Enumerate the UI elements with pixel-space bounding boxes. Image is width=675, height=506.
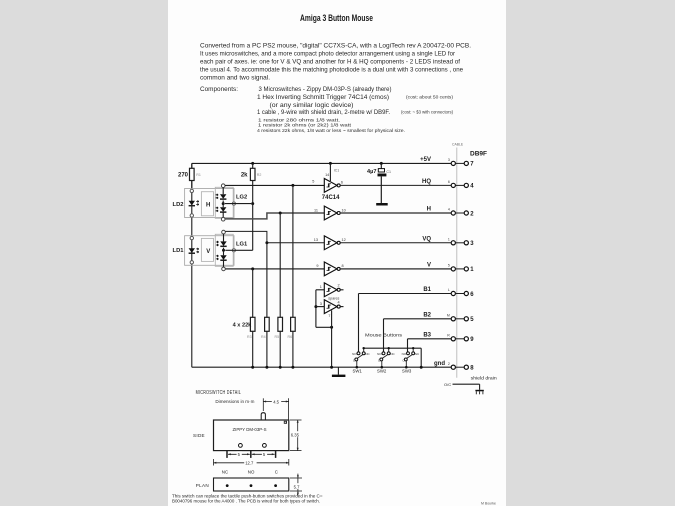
svg-text:4.5: 4.5 [273, 399, 279, 404]
label SW2 [377, 369, 387, 374]
label 4x22k [233, 322, 295, 368]
label spares [328, 296, 339, 300]
intro paragraph [200, 42, 471, 81]
svg-text:10: 10 [342, 208, 346, 212]
svg-text:NO: NO [377, 352, 382, 356]
wire V output [340, 268, 451, 270]
svg-text:8: 8 [342, 264, 344, 268]
inverter U1C VQ [314, 236, 346, 250]
svg-text:V: V [427, 263, 431, 269]
svg-text:3: 3 [320, 302, 322, 306]
wire B3 [408, 339, 452, 352]
svg-text:LD2: LD2 [173, 202, 184, 208]
svg-text:(cost: ~ $3 with connectors): (cost: ~ $3 with connectors) [401, 109, 454, 114]
svg-text:Components:: Components: [200, 86, 238, 93]
svg-text:IC1: IC1 [334, 168, 339, 172]
resistor R5 [278, 213, 283, 367]
wire HQ output [340, 184, 451, 186]
svg-text:1 Hex Inverting Schmitt Trigge: 1 Hex Inverting Schmitt Trigger 74C14 (c… [257, 94, 389, 101]
svg-text:R2: R2 [257, 173, 262, 177]
svg-text:1: 1 [448, 237, 450, 241]
svg-text:M: M [447, 313, 450, 317]
ground symbol [332, 367, 346, 377]
svg-text:DB9F: DB9F [470, 150, 487, 157]
svg-text:9: 9 [316, 264, 318, 268]
switch legs [227, 451, 276, 458]
svg-text:common and two signal.: common and two signal. [200, 74, 270, 81]
svg-text:PLAN: PLAN [196, 483, 209, 488]
svg-text:6: 6 [448, 180, 450, 184]
switch SW3 [402, 347, 420, 369]
svg-text:5: 5 [312, 180, 314, 184]
connector node H pin 2 [427, 207, 475, 218]
svg-text:1 cable , 9-wire with shield d: 1 cable , 9-wire with shield drain, 2-me… [257, 109, 390, 116]
resistors 4x22k R3 R4 R5 R6 [250, 269, 255, 367]
svg-text:B0040796 mouse for the A4000: B0040796 mouse for the A4000 . The PCB i… [172, 499, 320, 504]
inverter U1D V [316, 262, 343, 276]
connector node +5V pin 7 [420, 157, 474, 168]
svg-text:NO: NO [352, 352, 357, 356]
IC ground pin 7 [328, 310, 333, 368]
svg-text:+5V: +5V [420, 157, 431, 163]
svg-text:4: 4 [448, 208, 450, 212]
connector node HQ pin 4 [422, 179, 474, 190]
connector node B2 pin 5 [423, 312, 474, 323]
svg-text:12.7: 12.7 [245, 461, 254, 466]
svg-text:NC: NC [222, 470, 228, 475]
svg-text:4µ7: 4µ7 [367, 169, 376, 175]
wire ground bottom rail [192, 366, 451, 368]
photodiode pair LG2 [216, 184, 252, 221]
inverter U1A HQ [312, 179, 343, 193]
svg-text:L: L [448, 288, 450, 292]
resistor R6 [291, 185, 296, 367]
svg-text:270: 270 [178, 172, 189, 178]
svg-text:ZIPPY DM-03P-S: ZIPPY DM-03P-S [233, 427, 267, 432]
svg-text:1 resistor 2k ohms (or 2k2): 1 resistor 2k ohms (or 2k2) 1/8 watt [258, 123, 352, 128]
svg-text:4 x 22k: 4 x 22k [233, 322, 253, 328]
dimension 4.5 [263, 398, 288, 419]
svg-text:M Bourke: M Bourke [481, 501, 496, 505]
svg-text:shield drain: shield drain [471, 376, 498, 381]
wire R2 to photodiode common node [251, 185, 254, 250]
dimension 5 5 [228, 451, 275, 457]
svg-text:12: 12 [342, 238, 346, 242]
LED LD2 [173, 189, 199, 217]
svg-text:LD1: LD1 [173, 248, 185, 254]
svg-text:B1: B1 [423, 287, 431, 293]
svg-text:SIDE: SIDE [193, 433, 205, 438]
svg-text:V: V [206, 249, 210, 255]
svg-text:LG1: LG1 [236, 241, 248, 247]
svg-text:SW1: SW1 [353, 369, 363, 374]
svg-text:SW3: SW3 [402, 369, 412, 374]
svg-text:2: 2 [338, 284, 340, 288]
label Mouse Buttons [365, 333, 403, 338]
wire B1 [359, 294, 452, 352]
switch SW2 [377, 347, 395, 369]
switch plan view [196, 478, 289, 491]
svg-text:Converted from a PC PS2 mouse,: Converted from a PC PS2 mouse, "digital"… [200, 42, 471, 49]
svg-text:NO: NO [248, 470, 255, 475]
wire spare inputs tie [314, 290, 333, 329]
svg-text:H: H [427, 207, 431, 213]
resistor R2 2k [241, 162, 262, 185]
optocoupler V assembly box [185, 234, 234, 266]
connector node VQ pin 3 [422, 236, 474, 247]
svg-text:R3: R3 [247, 335, 252, 339]
connector node B3 pin 9 [423, 332, 474, 343]
footnote [172, 493, 323, 503]
signature M Bourke [481, 501, 496, 505]
svg-text:It uses microswitches, and a: It uses microswitches, and a more compac… [200, 50, 455, 57]
components list [200, 86, 454, 133]
svg-text:2: 2 [448, 362, 450, 366]
connector node gnd pin 8 [434, 361, 474, 372]
svg-text:1: 1 [320, 285, 322, 289]
capacitor C1 4u7 [367, 162, 391, 206]
wire B2 [384, 319, 452, 352]
wire HQ photodiode to inverter [225, 184, 324, 187]
svg-text:5.7: 5.7 [294, 484, 300, 489]
LED LD1 [173, 236, 199, 264]
svg-text:(cost: about 50 cents): (cost: about 50 cents) [406, 95, 454, 100]
svg-text:Amiga 3 Button Mouse: Amiga 3 Button Mouse [300, 13, 373, 23]
wire V photodiode to inverter [225, 267, 324, 270]
svg-text:LG2: LG2 [236, 195, 247, 201]
heading MICROSWITCH DETAIL [196, 390, 242, 396]
svg-text:R1: R1 [196, 173, 201, 177]
label SW1 [353, 369, 363, 374]
inverter U1F spare [320, 300, 344, 314]
wire +5V top rail [192, 162, 451, 164]
svg-text:2k: 2k [241, 172, 248, 178]
svg-text:HQ: HQ [422, 179, 431, 185]
switch SW1 [352, 347, 370, 369]
connector node B1 pin 6 [423, 287, 474, 298]
wire VQ photodiode to inverter [225, 231, 324, 244]
wire H output [340, 212, 451, 214]
resistor R1 270 [178, 163, 201, 188]
cable boundary line [452, 143, 464, 378]
wire switch NC common line [363, 348, 423, 369]
svg-text:gnd: gnd [434, 361, 445, 367]
dimension 5.7 [290, 474, 303, 496]
shield drain [444, 376, 497, 395]
label DB9F [470, 150, 487, 157]
optocoupler H assembly box [185, 187, 234, 218]
svg-text:3 Microswitches - Zippy DM-0: 3 Microswitches - Zippy DM-03P-S (alread… [259, 86, 392, 93]
pin labels NC NO C [222, 470, 278, 475]
wire H photodiode to inverter [225, 212, 324, 219]
svg-text:4 resistors 22k ohms, 1/8 wa: 4 resistors 22k ohms, 1/8 watt or less ~… [257, 128, 405, 133]
svg-text:7: 7 [328, 314, 330, 318]
label 74C14 [322, 195, 340, 201]
svg-text:B2: B2 [423, 312, 431, 318]
svg-text:SW2: SW2 [377, 369, 387, 374]
connector node V pin 1 [427, 263, 474, 274]
resistor R4 [265, 243, 270, 367]
svg-text:13: 13 [314, 238, 318, 242]
svg-text:R6: R6 [288, 335, 293, 339]
label dimensions in mm [215, 399, 254, 404]
svg-text:74C14: 74C14 [322, 195, 340, 201]
svg-text:4: 4 [338, 300, 340, 304]
dimension 6.35 [290, 420, 303, 451]
svg-text:MICROSWITCH DETAIL: MICROSWITCH DETAIL [196, 390, 242, 396]
svg-text:CABLE: CABLE [452, 143, 464, 147]
svg-text:the usual 4. To accommodate: the usual 4. To accommodate this the mat… [200, 66, 463, 73]
inverter U1E spare [320, 283, 344, 297]
switch side view body [193, 413, 289, 451]
svg-text:Mouse Buttons: Mouse Buttons [365, 333, 403, 338]
svg-text:R4: R4 [261, 335, 266, 339]
inverter U1B H [314, 206, 346, 220]
svg-text:H: H [206, 202, 210, 208]
page [168, 0, 506, 506]
wire left LED string [191, 163, 193, 367]
svg-text:B3: B3 [423, 332, 431, 338]
svg-text:R5: R5 [275, 335, 280, 339]
svg-text:6: 6 [341, 180, 343, 184]
svg-text:6.35: 6.35 [291, 432, 300, 437]
dimension 12.7 [214, 459, 289, 466]
wire VQ output [340, 242, 451, 244]
svg-text:each pair of axes. ie: one f: each pair of axes. ie: one for V & VQ an… [200, 58, 460, 65]
svg-text:NO: NO [402, 352, 407, 356]
svg-text:C1: C1 [386, 170, 391, 174]
photodiode pair LG1 [216, 230, 253, 270]
svg-text:5: 5 [448, 264, 450, 268]
svg-text:VQ: VQ [422, 236, 431, 242]
svg-text:Dimensions in m·m: Dimensions in m·m [215, 399, 254, 404]
svg-text:11: 11 [314, 208, 318, 212]
svg-text:O/C: O/C [444, 382, 451, 387]
IC1 74C14 power pin 14 [325, 162, 339, 181]
svg-text:C: C [275, 470, 278, 475]
svg-text:14: 14 [325, 173, 329, 177]
label SW3 [402, 369, 412, 374]
svg-text:3: 3 [448, 158, 450, 162]
